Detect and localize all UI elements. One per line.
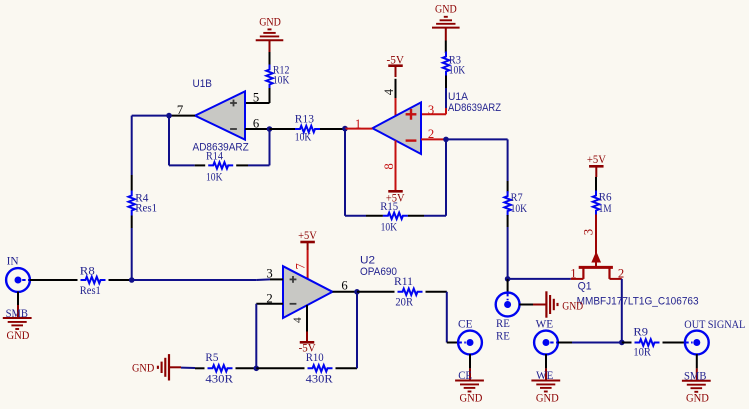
wire R12 to pin 5 (245, 88, 270, 103)
label AD8639ARZ (U1B) (193, 141, 250, 153)
power ground bar (RE) (546, 291, 583, 317)
resistor R10 (306, 350, 333, 386)
label U1B (193, 78, 213, 90)
power port -5V (U1A pin 4) (387, 53, 405, 78)
wire R11 to CE (426, 292, 459, 343)
wire R9 to OUT (663, 342, 686, 344)
pin 8 label (382, 163, 396, 169)
node 1 (U1A output) (342, 126, 348, 132)
pin 1 stub (345, 128, 372, 130)
resistor R12 (266, 62, 289, 89)
connector WE (534, 331, 558, 355)
svg-text:4: 4 (292, 317, 304, 323)
label OUT SIGNAL (684, 317, 745, 331)
pin 8 stub (395, 140, 397, 191)
label IN (7, 254, 19, 268)
net label WE (536, 368, 553, 382)
svg-text:GND: GND (536, 391, 559, 405)
power port +5V (U2) (298, 228, 317, 250)
pin 2 label (428, 127, 434, 141)
wire R15 left pin (345, 215, 383, 217)
label GND (CE) (460, 391, 483, 405)
svg-text:GND: GND (259, 14, 281, 28)
pin 3 label (428, 103, 434, 117)
svg-text:R14: R14 (206, 149, 223, 163)
pin 6 label U2 (341, 279, 347, 293)
svg-text:R11: R11 (394, 274, 413, 288)
resistor R6 (593, 190, 612, 216)
wire R3 top pin (445, 41, 447, 54)
svg-text:10K: 10K (206, 170, 223, 184)
resistor R3 (443, 52, 466, 77)
label MMBFJ177LT1G_C106763 (577, 296, 699, 308)
svg-text:430R: 430R (205, 372, 233, 386)
resistor R7 (504, 190, 527, 216)
pin 2 stub U2 (256, 303, 283, 305)
wire node up to U1B (132, 116, 169, 221)
pin 6 stub (245, 128, 270, 130)
transistor Q1 (P-JFET) (571, 253, 622, 279)
svg-text:R5: R5 (205, 350, 218, 364)
pin 7 stub U2 (307, 250, 309, 279)
stub RE to gnd bar (519, 304, 546, 306)
node WE/R9 (619, 340, 625, 346)
wire R14 loop right (269, 129, 271, 165)
svg-text:4: 4 (382, 88, 396, 95)
net label SMB (OUT) (684, 369, 707, 383)
label GND (WE) (536, 391, 559, 405)
pin 4 label U2 (292, 317, 304, 323)
svg-text:1M: 1M (599, 201, 612, 215)
power port GND (top of R12) (256, 14, 284, 52)
wire R8 to node (109, 279, 132, 281)
svg-text:OPA690: OPA690 (360, 266, 397, 278)
wire WE to node (558, 342, 622, 344)
svg-text:WE: WE (536, 316, 554, 330)
pin 6 label (253, 117, 259, 131)
earth ground (IN) (3, 318, 32, 329)
wire R14 left pin (169, 164, 205, 166)
svg-text:Q1: Q1 (578, 281, 592, 293)
wire R7 top (507, 139, 509, 192)
op-amp U1B (195, 91, 245, 139)
svg-text:3: 3 (428, 103, 434, 117)
label RE designator (496, 316, 510, 330)
svg-text:R13: R13 (295, 111, 314, 125)
wire pin6 to R13 (270, 128, 296, 130)
pin 2 label U2 (266, 291, 272, 305)
svg-text:Res1: Res1 (135, 201, 157, 215)
wire R14 loop left (168, 116, 170, 166)
wire R5 to node (236, 367, 257, 369)
stub CE ground (469, 354, 471, 380)
power port +5V (Q1) (587, 152, 606, 177)
svg-text:Res1: Res1 (80, 283, 101, 297)
label GND (IN) (7, 328, 30, 342)
svg-text:R8: R8 (80, 264, 95, 278)
resistor R4 (129, 191, 158, 216)
stub IN ground (17, 292, 19, 318)
svg-text:10K: 10K (449, 63, 466, 77)
wire output to R11 (357, 291, 395, 293)
label OPA690 (360, 266, 397, 278)
label GND (OUT) (686, 391, 709, 405)
wire R13 to node 1 (320, 128, 345, 130)
node R8 (129, 277, 135, 283)
wire node to U2 pin3 (132, 278, 270, 281)
connector IN (6, 268, 30, 292)
svg-text:R10: R10 (306, 350, 324, 364)
pin 4 label (382, 88, 396, 95)
earth ground (WE) (531, 381, 560, 392)
pin 3 stub U2 (270, 278, 283, 280)
connector OUT SIGNAL (685, 331, 709, 355)
pin 7 label (177, 103, 183, 117)
svg-text:OUT SIGNAL: OUT SIGNAL (684, 317, 745, 331)
resistor R9 (633, 324, 659, 358)
svg-text:10K: 10K (273, 73, 290, 87)
svg-text:GND: GND (132, 360, 155, 374)
node RE junction (505, 276, 511, 282)
resistor R5 (205, 350, 233, 386)
pin 5 label (253, 91, 259, 105)
svg-text:GND: GND (435, 2, 457, 16)
wire pin2 to R7 column (446, 138, 508, 140)
connector RE (496, 293, 520, 317)
svg-text:AD8639ARZ: AD8639ARZ (448, 102, 501, 114)
svg-text:1: 1 (570, 267, 576, 281)
wire node to R9 (622, 342, 632, 344)
pin 4 stub U2 (306, 305, 308, 342)
svg-text:10R: 10R (633, 344, 651, 358)
pin 4 stub (395, 79, 397, 116)
wire R7 bottom (507, 215, 509, 279)
stub OUT ground (696, 354, 698, 381)
svg-text:8: 8 (382, 163, 396, 169)
pin 3 label U2 (266, 267, 272, 281)
wire junction to Q1 pin1 (508, 278, 571, 280)
connector CE (458, 331, 482, 355)
label U1A (448, 91, 469, 103)
wire R15 loop right (445, 139, 447, 215)
svg-text:2: 2 (266, 291, 272, 305)
earth ground (OUT) (682, 381, 711, 392)
pin 3 label Q1 (582, 229, 596, 235)
svg-text:+5V: +5V (587, 152, 606, 166)
svg-text:GND: GND (7, 328, 30, 342)
node U2 output (354, 289, 360, 295)
label Q1 (578, 281, 592, 293)
svg-text:U1B: U1B (193, 78, 213, 90)
svg-text:IN: IN (7, 254, 19, 268)
svg-text:5: 5 (253, 91, 259, 105)
pin 1 label Q1 (570, 267, 576, 281)
resistor R8 (80, 264, 106, 298)
svg-text:R9: R9 (633, 324, 648, 338)
wire R4 to node (131, 216, 133, 281)
node pin6 (267, 126, 273, 132)
wire R3 to pin 3 (445, 76, 447, 115)
power port -5V (U2) (299, 341, 316, 355)
pin 3 stub (421, 113, 446, 115)
label AD8639ARZ (U1A) (448, 102, 501, 114)
wire gnd bar to R5 (169, 367, 205, 368)
svg-text:430R: 430R (306, 372, 333, 386)
op-amp U1A (372, 102, 421, 154)
svg-text:3: 3 (266, 267, 272, 281)
node pin2 U1A (443, 137, 449, 143)
resistor R14 (206, 149, 233, 184)
svg-text:+5V: +5V (298, 228, 317, 242)
wire R12 top pin (269, 52, 271, 66)
pin 2 stub (421, 138, 446, 140)
wire Q1 pin2 down (621, 279, 623, 343)
svg-text:6: 6 (341, 279, 347, 293)
svg-text:MMBFJ177LT1G_C106763: MMBFJ177LT1G_C106763 (577, 296, 699, 308)
pin 3 gate wire (595, 215, 597, 268)
label U2 (360, 255, 375, 267)
resistor R15 (380, 199, 408, 233)
pin 6 stub U2 (333, 291, 358, 293)
svg-text:10K: 10K (295, 129, 312, 143)
earth ground (CE) (455, 381, 484, 392)
label WE (536, 316, 554, 330)
svg-text:RE: RE (496, 328, 510, 342)
op-amp U2 (283, 266, 333, 318)
node R5/R10 (253, 366, 259, 372)
svg-text:10K: 10K (381, 219, 398, 233)
wire node to R10 (256, 367, 304, 369)
wire pin2 down (255, 304, 257, 369)
wire R10 to output node (336, 292, 358, 369)
svg-text:3: 3 (582, 229, 596, 235)
svg-text:U2: U2 (360, 255, 375, 267)
pin 7 label U2 (294, 263, 308, 269)
svg-text:GND: GND (562, 298, 583, 312)
stub WE ground (545, 354, 547, 380)
svg-text:R15: R15 (380, 199, 398, 213)
power port GND (top of R3) (432, 2, 460, 41)
svg-text:10K: 10K (511, 201, 528, 215)
wire R15 loop left (344, 129, 346, 216)
pin 1 label (355, 117, 361, 131)
svg-text:CE: CE (458, 316, 473, 330)
wire IN to R8 (30, 279, 78, 281)
wire R6 top pin (595, 177, 597, 192)
resistor R11 (394, 274, 423, 309)
pin 7 stub (169, 115, 195, 117)
resistor R13 (295, 111, 320, 143)
svg-text:2: 2 (618, 267, 624, 281)
wire R15 right pin (408, 215, 446, 217)
svg-text:7: 7 (294, 263, 308, 269)
pin 2 label Q1 (618, 267, 624, 281)
stub RE connector (507, 279, 509, 292)
svg-text:20R: 20R (395, 294, 413, 308)
node pin7 (166, 113, 172, 119)
power port +5V (U1A pin 8) (386, 191, 405, 205)
label CE (458, 316, 473, 330)
net label CE (458, 368, 472, 382)
net label SMB (IN) (6, 306, 29, 320)
svg-text:GND: GND (686, 391, 709, 405)
power ground bar (R5) (132, 354, 169, 380)
label RE net (496, 328, 510, 342)
wire R14 right pin (236, 164, 269, 166)
svg-text:GND: GND (460, 391, 483, 405)
